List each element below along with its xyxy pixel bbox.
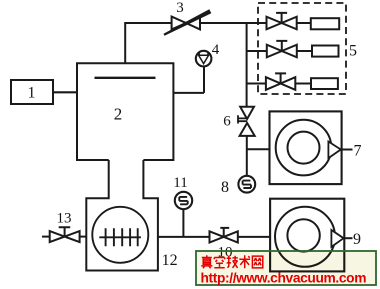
valve V5c row3 xyxy=(266,73,295,89)
svg-text:13: 13 xyxy=(57,211,72,227)
valve 6 xyxy=(223,107,254,136)
wire valve10 to pump9 xyxy=(238,236,270,238)
svg-text:9: 9 xyxy=(353,231,361,248)
valve 3 xyxy=(164,0,212,36)
trap rectangle row1 xyxy=(311,18,339,29)
watermark background xyxy=(196,251,376,285)
svg-text:7: 7 xyxy=(354,143,362,160)
trap rectangle row2 xyxy=(312,46,339,57)
dashed box 5 xyxy=(258,3,357,94)
wire pump7 to label 7 xyxy=(342,149,353,151)
box 1 xyxy=(11,80,53,104)
pump 7 xyxy=(270,111,362,184)
wire row2 valve to trap xyxy=(297,50,312,52)
wire pump12 to valve10 xyxy=(158,236,210,238)
valve V5a row1 xyxy=(267,13,297,29)
wire branch row3 xyxy=(247,83,266,85)
svg-text:3: 3 xyxy=(176,0,184,16)
watermark chinese text 真空技术网 xyxy=(201,255,263,268)
trap rectangle row3 xyxy=(311,78,338,89)
svg-text:12: 12 xyxy=(162,252,178,269)
valve V5b row2 xyxy=(267,41,297,57)
pump 9 xyxy=(270,199,361,272)
svg-text:5: 5 xyxy=(349,43,357,60)
wire row3 valve to trap xyxy=(295,83,311,85)
svg-text:8: 8 xyxy=(221,179,229,196)
wire box2 to gauge4 stem xyxy=(173,92,204,94)
wire branch row2 xyxy=(247,50,267,52)
wire pump9 to label 9 xyxy=(344,237,352,239)
wire box1 to box2 xyxy=(53,91,77,93)
svg-text:http://www.chvacuum.com: http://www.chvacuum.com xyxy=(201,271,367,286)
svg-text:6: 6 xyxy=(223,114,231,130)
gauge 11 xyxy=(173,175,192,209)
valve 13 xyxy=(42,211,86,243)
pump 12 with inlet neck xyxy=(86,160,177,271)
wire manifold vertical xyxy=(246,23,248,107)
wire valve3 to manifold and row1 xyxy=(200,22,267,24)
gauge 4 xyxy=(196,42,220,93)
chamber box 2 xyxy=(77,63,173,160)
wire valve6 down to gauge8 xyxy=(246,136,248,176)
wire branch to pump7 xyxy=(247,148,270,150)
svg-text:11: 11 xyxy=(173,175,187,191)
watermark border xyxy=(196,251,376,285)
wire gauge11 stem xyxy=(182,209,184,237)
wire row1 valve to trap xyxy=(297,22,311,24)
valve 10 xyxy=(210,228,238,261)
svg-text:2: 2 xyxy=(114,105,123,124)
svg-text:4: 4 xyxy=(212,42,220,58)
wire box2 top pipe xyxy=(125,23,171,63)
gauge 8 xyxy=(221,176,255,196)
svg-text:1: 1 xyxy=(28,85,36,102)
